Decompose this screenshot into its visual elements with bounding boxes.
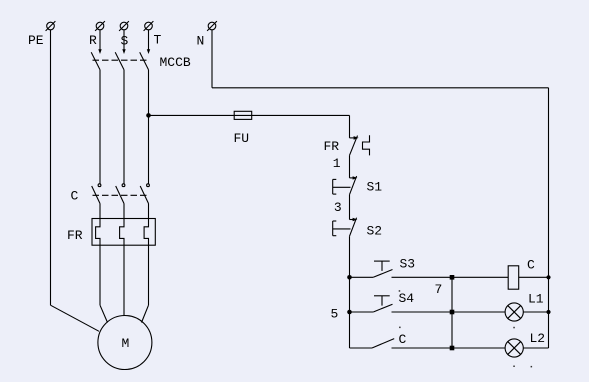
node middle bus row2 — [450, 310, 455, 315]
MCCB mechanical link (dashed) — [93, 59, 150, 61]
terminal R — [95, 21, 105, 31]
node L1-N junction — [546, 310, 550, 314]
motor M — [98, 316, 152, 370]
pushbutton S4 (NO start) — [350, 296, 393, 312]
svg-text:C: C — [71, 189, 79, 204]
speck below L2 right — [531, 366, 533, 368]
wire C aux to middle bus — [392, 347, 453, 349]
wire middle bus vertical — [451, 277, 453, 348]
node middle bus row1 — [450, 275, 455, 280]
overload FR heater pole R — [96, 219, 100, 246]
wire middle bus to L2 — [452, 347, 505, 349]
wire FR to S1 — [349, 155, 351, 178]
wire S4 to middle bus — [392, 311, 453, 313]
svg-text:5: 5 — [331, 307, 339, 322]
breaker MCCB pole R — [91, 30, 102, 70]
pushbutton S1 (NC stop) — [333, 176, 358, 195]
node S4 branch junction — [347, 310, 352, 315]
coil C — [508, 266, 519, 289]
speck above C aux — [399, 327, 401, 329]
svg-text:S4: S4 — [399, 291, 415, 306]
svg-text:MCCB: MCCB — [160, 55, 191, 70]
wire control feed horizontal — [149, 114, 350, 116]
lamp L2 — [505, 339, 523, 357]
wire PE vertical — [50, 30, 52, 305]
svg-text:T: T — [154, 33, 162, 48]
pushbutton S2 (NC stop) — [333, 218, 358, 237]
svg-text:C: C — [527, 258, 535, 273]
overload FR heater pole S — [120, 219, 124, 246]
wire N right vertical — [548, 88, 550, 348]
contactor C main pole S — [116, 184, 125, 219]
wire control drop — [349, 115, 351, 137]
overload FR heater pole T — [144, 219, 148, 246]
svg-text:N: N — [197, 34, 205, 49]
wire node7 to coil — [452, 276, 508, 278]
wire left control bus — [349, 236, 351, 348]
wire S3 to node 7 — [392, 276, 453, 278]
breaker MCCB pole S — [115, 30, 126, 70]
wire N horizontal — [212, 87, 549, 89]
contactor C link (dashed) — [93, 194, 149, 196]
svg-text:7: 7 — [435, 282, 443, 297]
svg-text:FU: FU — [234, 131, 250, 146]
svg-text:S3: S3 — [400, 257, 416, 272]
svg-text:PE: PE — [28, 33, 44, 48]
wire pole R to motor — [100, 245, 108, 322]
speck below L2 left — [513, 366, 515, 368]
wire middle bus to L1 — [452, 311, 505, 313]
svg-text:L2: L2 — [530, 331, 546, 346]
overload relay FR box — [92, 219, 155, 246]
node S3 branch junction — [347, 275, 352, 280]
contact FR (NC thermal) — [350, 135, 370, 155]
wire pole S (MCCB to contactor) — [123, 70, 125, 184]
terminal PE — [46, 21, 56, 31]
contactor C main pole T — [140, 184, 149, 219]
speck above S4 — [399, 290, 401, 292]
wire coil to N bus — [519, 276, 549, 278]
contactor C main pole R — [92, 184, 101, 219]
svg-text:1: 1 — [333, 156, 341, 171]
wire pole T (MCCB to contactor) — [148, 70, 150, 184]
svg-text:C: C — [399, 332, 407, 347]
pushbutton S3 (NO start) — [350, 261, 393, 277]
node coil-N junction — [546, 275, 550, 279]
svg-text:S2: S2 — [367, 224, 383, 239]
wire pole R (MCCB to contactor) — [99, 70, 101, 184]
svg-text:FR: FR — [67, 228, 83, 243]
breaker MCCB pole T — [140, 30, 151, 70]
svg-text:R: R — [89, 33, 97, 48]
wire pole T to motor — [142, 245, 149, 322]
fuse FU — [234, 111, 252, 119]
wire N vertical — [211, 30, 213, 88]
terminal N — [207, 21, 217, 31]
speck above L2 — [513, 327, 515, 329]
wire L1 to N bus — [523, 311, 548, 313]
lamp L1 — [505, 303, 523, 321]
svg-text:S1: S1 — [367, 180, 383, 195]
contact C aux (NO self-hold) — [350, 339, 395, 348]
svg-text:FR: FR — [324, 139, 340, 154]
node control tap junction — [146, 113, 151, 118]
wire PE diagonal to motor — [51, 305, 100, 331]
terminal S — [119, 21, 129, 31]
wire pole S to motor — [123, 245, 125, 315]
node middle bus row3 — [450, 346, 455, 351]
wire L2 to N bus — [523, 347, 548, 349]
svg-text:3: 3 — [334, 200, 342, 215]
wire S1 to S2 — [349, 195, 351, 220]
terminal T — [144, 21, 154, 31]
svg-text:L1: L1 — [528, 292, 544, 307]
svg-text:M: M — [122, 336, 130, 351]
